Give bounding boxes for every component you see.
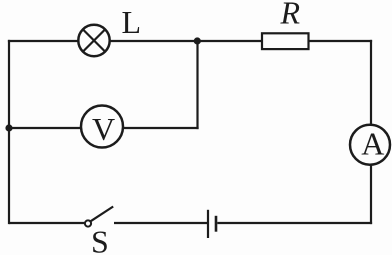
wire lamp to top junction (110, 40, 198, 42)
wire voltmeter to branch corner (123, 127, 199, 129)
wire left junction to voltmeter (9, 127, 82, 129)
node: top junction dot (194, 37, 201, 44)
wire switch to battery (114, 222, 207, 224)
wire resistor to top-right corner (309, 40, 373, 42)
resistor R (262, 33, 309, 49)
wire left rail (8, 40, 10, 224)
wire top junction to resistor (198, 40, 263, 42)
wire branch vertical up to top junction (196, 41, 198, 129)
voltmeter V (81, 106, 123, 148)
wire right rail lower (370, 165, 372, 225)
lamp L (78, 25, 109, 56)
svg-text:R: R (280, 0, 301, 31)
svg-text:S: S (91, 224, 109, 255)
node: left junction dot (5, 124, 12, 131)
svg-text:A: A (361, 126, 384, 162)
svg-text:V: V (92, 111, 115, 147)
wire battery to bottom-right corner (217, 222, 372, 224)
wire top-left segment (8, 40, 79, 42)
svg-text:L: L (122, 4, 142, 40)
wire right rail upper (370, 40, 372, 126)
ammeter A (350, 125, 390, 165)
battery cell (208, 210, 216, 238)
wire bottom-left segment (9, 222, 85, 224)
switch S (85, 207, 113, 227)
